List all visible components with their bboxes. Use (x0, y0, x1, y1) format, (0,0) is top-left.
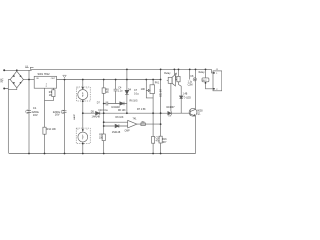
svg-text:R7 1.5K: R7 1.5K (137, 108, 146, 111)
svg-text:0.1u: 0.1u (134, 92, 139, 95)
svg-text:1.4B: 1.4B (183, 93, 188, 95)
svg-text:RLY: RLY (203, 80, 208, 82)
svg-text:CMP: CMP (125, 131, 131, 133)
svg-text:R6 1K5: R6 1K5 (130, 100, 139, 103)
svg-text:10K: 10K (141, 88, 146, 91)
svg-text:Relay: Relay (199, 72, 206, 74)
svg-text:10K: 10K (99, 138, 104, 140)
svg-text:R12 10K: R12 10K (47, 128, 57, 131)
svg-text:16V: 16V (55, 113, 60, 117)
svg-text:C2M: C2M (188, 84, 193, 86)
svg-text:LAMP: LAMP (73, 114, 76, 120)
svg-text:1.1u: 1.1u (118, 90, 123, 93)
svg-text:RV1: RV1 (155, 83, 160, 85)
svg-text:1N4148: 1N4148 (111, 106, 120, 109)
svg-text:C11: C11 (156, 137, 161, 139)
svg-text:1K: 1K (106, 91, 109, 94)
svg-text:R6 10K: R6 10K (118, 110, 126, 112)
svg-text:C10 0.1u: C10 0.1u (98, 109, 108, 112)
svg-text:D6 10K: D6 10K (116, 116, 124, 119)
svg-text:741: 741 (133, 117, 138, 120)
svg-text:1N4148: 1N4148 (92, 115, 101, 118)
svg-text:SW1 7812: SW1 7812 (38, 72, 51, 76)
svg-text:R15 1K: R15 1K (176, 72, 178, 80)
svg-text:1.1u: 1.1u (188, 82, 193, 84)
svg-text:C1: C1 (33, 106, 37, 110)
svg-text:4K7: 4K7 (162, 142, 167, 144)
svg-text:1N4007: 1N4007 (166, 106, 175, 109)
svg-text:1K: 1K (49, 94, 52, 97)
svg-text:OUT: OUT (51, 78, 56, 80)
svg-text:16V: 16V (33, 113, 38, 117)
svg-text:IN: IN (0, 82, 3, 84)
svg-text:Relay: Relay (164, 72, 171, 75)
svg-text:R16: R16 (162, 139, 167, 141)
svg-text:1N4148: 1N4148 (112, 131, 121, 134)
svg-text:LED: LED (186, 97, 191, 100)
svg-text:BZ1 8R: BZ1 8R (160, 89, 163, 97)
